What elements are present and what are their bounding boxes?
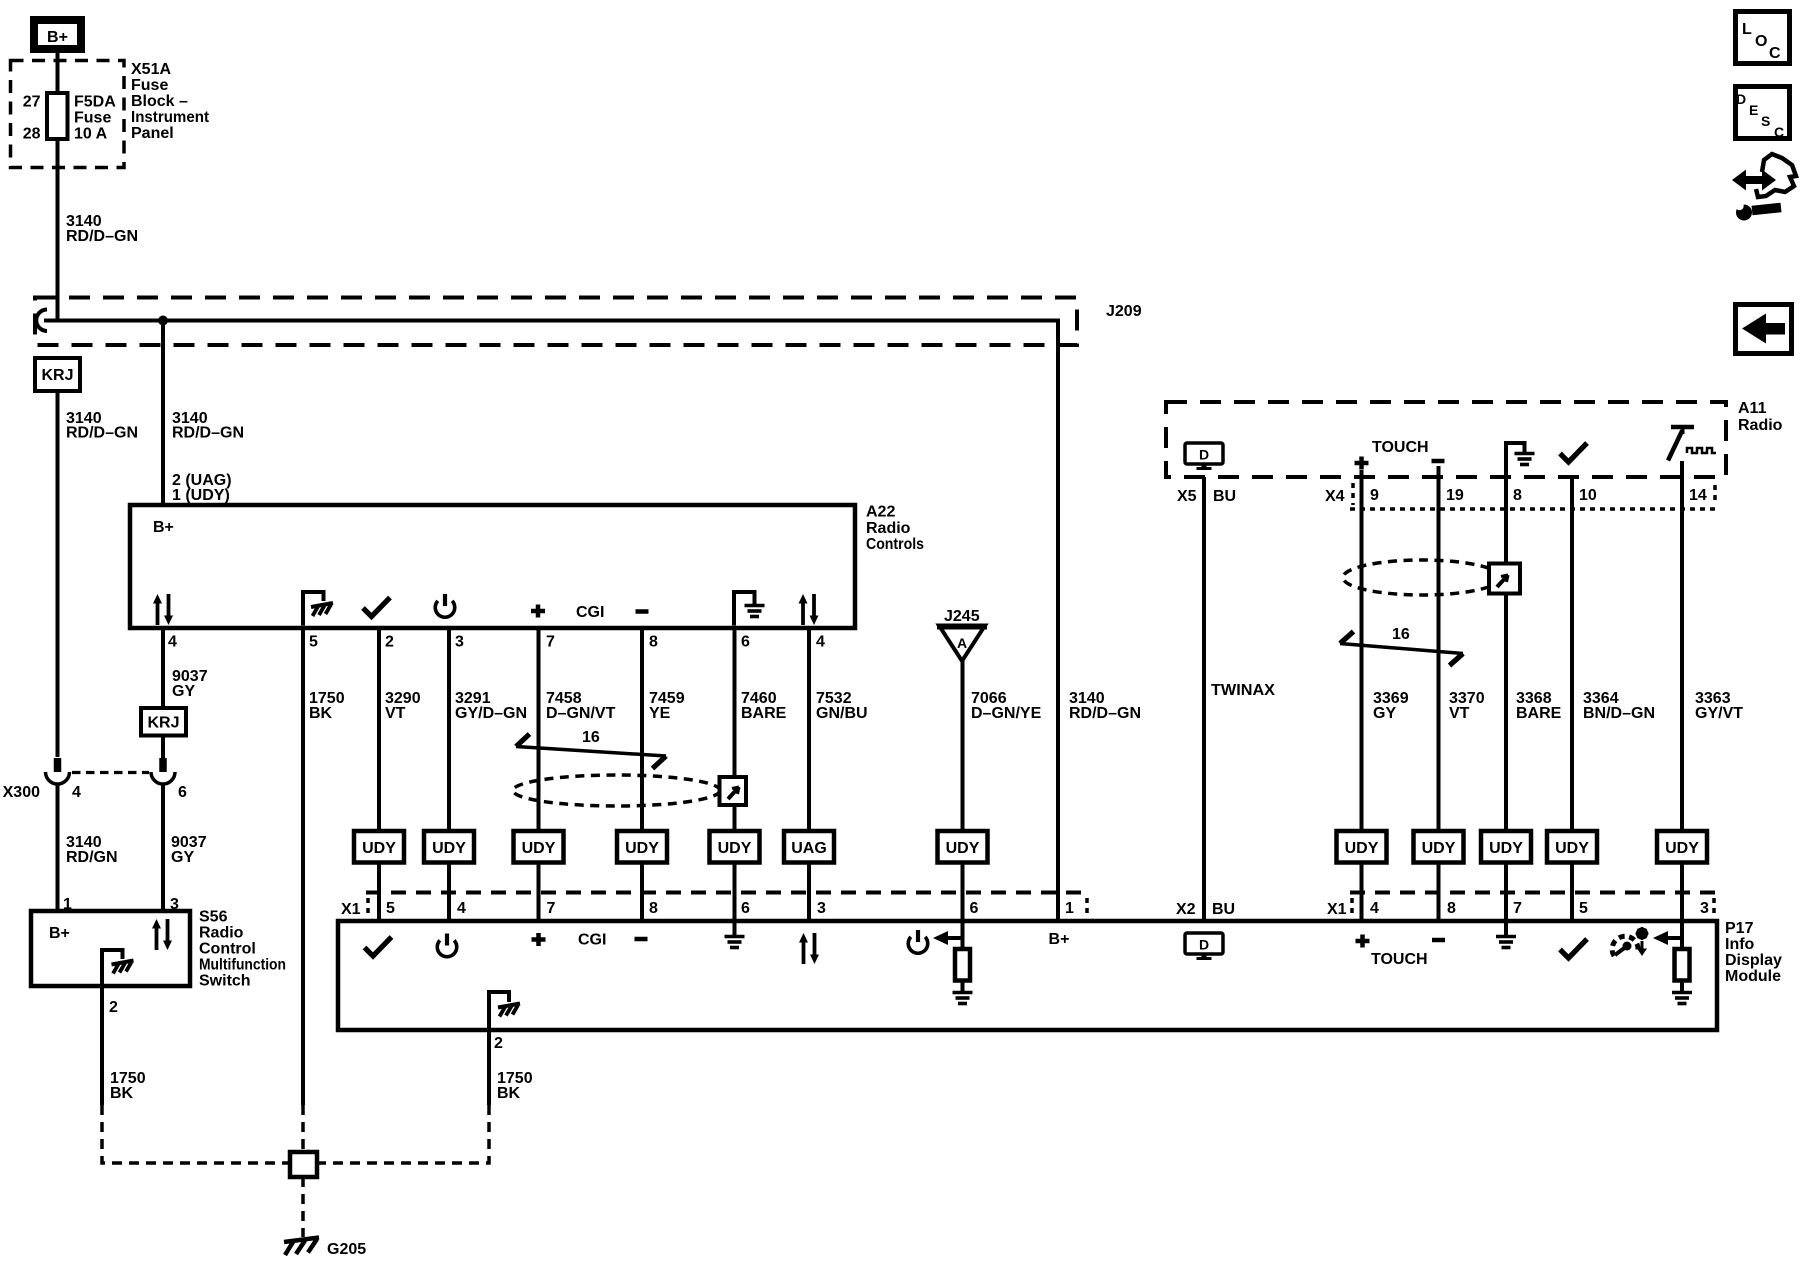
wire 3369 GY (touch +) (1360, 470, 1364, 831)
svg-text:J245: J245 (944, 608, 980, 625)
svg-text:KRJ: KRJ (41, 367, 73, 384)
splice code UDY (pin 3 wire) (424, 831, 474, 863)
P17 TOUCH - node (1432, 939, 1445, 941)
wire 3140 RD/D-GN from J209 down to P17 pin 1 (1056, 319, 1060, 922)
svg-text:A: A (957, 635, 967, 651)
male terminal at X300 pin 4 (54, 758, 62, 772)
wire 3364 UDY to P17 pin 5 (1570, 863, 1574, 922)
splice code UDY (pin 2 wire) (354, 831, 404, 863)
svg-text:6: 6 (178, 784, 187, 801)
svg-text:2: 2 (385, 634, 394, 651)
wire label 7066 D-GN/YE (971, 690, 1042, 722)
svg-text:Display: Display (1725, 952, 1782, 969)
wire 7459 YE from A22 pin 8 (640, 628, 644, 831)
svg-text:GY: GY (172, 683, 195, 700)
P17 TOUCH + node (1356, 935, 1370, 948)
A22 internal chassis ground hook (pin 5) (301, 592, 324, 626)
splice code UDY (pin 7 wire) (514, 831, 564, 863)
wire 1750 BK from P17 pin 2 (487, 1030, 491, 1105)
svg-text:BARE: BARE (741, 705, 787, 722)
svg-text:TWINAX: TWINAX (1211, 682, 1275, 699)
P17 earth ground below resistor (right) (1672, 993, 1692, 1004)
svg-text:X2: X2 (1176, 901, 1196, 918)
splice code UDY (pin 6 wire) (710, 831, 760, 863)
bus wire inside J209 (44, 319, 1058, 323)
radio control multifunction switch S56 (31, 911, 190, 986)
svg-text:KRJ: KRJ (147, 715, 179, 732)
svg-text:6: 6 (970, 900, 979, 917)
svg-text:2: 2 (494, 1035, 503, 1052)
shield drain arrow inside box (728, 787, 739, 799)
svg-text:VT: VT (385, 705, 406, 722)
splice harness J209 dashed outline (35, 298, 1077, 346)
wire label 7459 YE (649, 690, 685, 722)
margin button DESC (1736, 87, 1790, 141)
connector X300 dashed link (72, 771, 149, 774)
A22 chassis ground symbol (311, 603, 333, 616)
connector X300 pin 4 female cup (46, 772, 70, 784)
wire 7458 D-GN/VT from A22 pin 7 (537, 628, 541, 831)
svg-text:RD/D–GN: RD/D–GN (172, 425, 244, 442)
P17 select (check) icon (365, 937, 392, 956)
svg-text:19: 19 (1446, 487, 1464, 504)
svg-text:7: 7 (546, 634, 555, 651)
connector band X4 bottom dotted line (1350, 507, 1718, 511)
X1 band right tick (1085, 898, 1089, 918)
svg-text:X300: X300 (3, 784, 40, 801)
svg-text:B+: B+ (1049, 931, 1070, 948)
X4 band left tick (1351, 483, 1355, 505)
connector X300 pin 6 female cup (151, 772, 175, 784)
wire label 3363 GY/VT (1695, 690, 1743, 722)
svg-text:2: 2 (109, 999, 118, 1016)
connector band X1 (right) dashed line (1350, 891, 1718, 895)
splice code UDY (3369 wire) (1337, 831, 1387, 863)
svg-text:X1: X1 (341, 901, 361, 918)
svg-text:F5DA: F5DA (74, 94, 116, 111)
splice code UDY (3363 wire) (1657, 831, 1707, 863)
wire 3368 BARE (shield) (1504, 477, 1508, 831)
svg-text:BK: BK (110, 1085, 134, 1102)
svg-text:GY: GY (1373, 705, 1396, 722)
wire 7532 UAG to P17 pin 3 (807, 863, 811, 922)
wire label 3140 RD/D-GN (fuse output) (66, 213, 138, 245)
wire 7458 UDY to P17 pin 7 (537, 863, 541, 922)
P17 up/down icon (799, 933, 819, 964)
pin label 2 (UAG) 1 (UDY) at A22 (172, 472, 232, 504)
svg-text:Multifunction: Multifunction (199, 957, 286, 974)
wire 3290 VT from A22 pin 2 (377, 628, 381, 831)
P17 power icon (7066 input) (908, 930, 928, 953)
svg-text:GY/D–GN: GY/D–GN (455, 705, 527, 722)
svg-text:C: C (1769, 45, 1781, 62)
S56 internal ground hook (pin 2) (100, 950, 123, 1030)
svg-text:28: 28 (23, 126, 41, 143)
P17 internal ground hook (pin 2) (487, 990, 509, 1030)
label S56 Radio Control Multifunction Switch (199, 909, 286, 990)
svg-text:7: 7 (1513, 900, 1522, 917)
svg-text:RD/D–GN: RD/D–GN (66, 228, 138, 245)
wire 3363 UDY to P17 pin 3 (1680, 863, 1684, 922)
svg-text:TOUCH: TOUCH (1372, 439, 1429, 456)
svg-text:RD/D–GN: RD/D–GN (66, 425, 138, 442)
svg-text:BN/D–GN: BN/D–GN (1583, 705, 1655, 722)
svg-text:Fuse: Fuse (131, 77, 168, 94)
wire 3290 UDY to P17 pin 5 (377, 863, 381, 922)
svg-text:UDY: UDY (1489, 840, 1523, 857)
wire label 3140 RD/D-GN (to P17 pin 1) (1069, 690, 1141, 722)
radio controls module A22 (130, 505, 855, 628)
label A22 Radio Controls (866, 504, 924, 554)
wire label 3140 RD/GN (66, 834, 118, 866)
wire 3369 UDY to P17 pin 4 (1360, 863, 1364, 922)
X1 right band left tick (1350, 898, 1354, 918)
svg-text:UDY: UDY (362, 840, 396, 857)
svg-text:B+: B+ (153, 519, 174, 536)
svg-text:Radio: Radio (866, 520, 911, 537)
wire 3368 UDY to P17 pin 7 (1504, 863, 1508, 922)
svg-text:Control: Control (199, 941, 256, 958)
fuse value label F5DA Fuse 10 A (74, 94, 116, 143)
arrow from wire 3363 to gauge icon (1666, 936, 1682, 940)
wire TWINAX BU from A11 X5 to P17 X2 (1202, 477, 1206, 921)
info display module P17 (338, 921, 1717, 1030)
svg-text:B+: B+ (49, 925, 70, 942)
A11 display icon D (1185, 443, 1223, 470)
svg-text:S: S (1761, 113, 1770, 129)
wire label 3140 RD/D-GN (below KRJ) (66, 410, 138, 442)
wire X300-4 to S56 pin 1 (56, 783, 60, 911)
svg-text:TOUCH: TOUCH (1371, 951, 1428, 968)
wire X300-6 to S56 pin 3 (161, 783, 165, 911)
svg-text:5: 5 (386, 900, 395, 917)
svg-text:10: 10 (1579, 487, 1597, 504)
svg-text:8: 8 (1513, 487, 1522, 504)
svg-text:UDY: UDY (946, 840, 980, 857)
wire label 7532 GN/BU (816, 690, 868, 722)
X1 right band right tick (1712, 898, 1716, 918)
P17 earth ground (touch shield) (1504, 921, 1508, 936)
X4 band right tick (1713, 485, 1717, 505)
svg-text:GY: GY (171, 849, 194, 866)
wire 7459 UDY to P17 pin 8 (640, 863, 644, 922)
svg-text:BU: BU (1212, 901, 1235, 918)
shield termination box on wire 7460 (720, 777, 747, 805)
svg-text:Radio: Radio (199, 925, 244, 942)
shield termination box on wire 3368 (1489, 564, 1520, 594)
wire label 9037 GY (below A22) (172, 668, 208, 700)
wire label 7458 D-GN/VT (546, 690, 616, 722)
svg-text:A11: A11 (1738, 400, 1767, 417)
svg-text:Block –: Block – (131, 93, 188, 110)
A22 seek up/down icon (153, 594, 173, 625)
connector KRJ (left, on wire 3140) (35, 358, 80, 391)
A11 antenna symbol (1668, 427, 1716, 461)
dashed ground wire from S56 pin 2 (102, 1105, 288, 1163)
wire label 7460 BARE (741, 690, 787, 722)
margin button LOC (1736, 12, 1790, 64)
wire label 1750 BK (P17 ground lead) (497, 1070, 533, 1102)
wire label 3368 BARE (1516, 690, 1562, 722)
shield ellipse (left) (513, 775, 720, 806)
label A11 Radio (1738, 400, 1783, 434)
svg-text:BK: BK (497, 1085, 521, 1102)
dashed wire junction to G205 (301, 1177, 305, 1237)
svg-text:Instrument: Instrument (131, 109, 210, 126)
P17 CGI - node (635, 938, 648, 940)
A11 earth ground hook (pin 8) (1504, 443, 1525, 477)
radio A11 dashed outline (1166, 402, 1726, 477)
margin button back-arrow (1736, 305, 1792, 354)
wire 3363 GY/VT (1680, 461, 1684, 831)
shield drain arrow inside box (1497, 575, 1508, 587)
wire KRJ to X300 pin 4 (56, 391, 60, 757)
S56 up/down icon (152, 919, 172, 950)
svg-text:UDY: UDY (1422, 840, 1456, 857)
X1 band left tick (366, 898, 370, 918)
wire label 3291 GY/D-GN (455, 690, 527, 722)
svg-text:27: 27 (23, 94, 41, 111)
svg-text:8: 8 (649, 900, 658, 917)
svg-text:3: 3 (1700, 900, 1709, 917)
wire label 1750 BK (S56 ground lead) (110, 1070, 146, 1102)
wire J209 to A22 pin B+ (161, 321, 165, 506)
svg-text:UDY: UDY (1345, 840, 1379, 857)
svg-text:UDY: UDY (432, 840, 466, 857)
svg-text:Info: Info (1725, 936, 1755, 953)
wire label 3364 BN/D-GN (1583, 690, 1655, 722)
wire 7066 D-GN/YE from J245 (961, 661, 965, 831)
twisted-lead arrow (left) (516, 747, 666, 757)
svg-text:BK: BK (309, 705, 333, 722)
P17 select (check) icon right (1560, 939, 1587, 958)
splice code UDY (3368 wire) (1481, 831, 1531, 863)
svg-text:Controls: Controls (866, 536, 924, 553)
svg-text:Fuse: Fuse (74, 110, 111, 127)
svg-text:G205: G205 (327, 1241, 366, 1258)
wire 7460 UDY to P17 pin 6 (733, 863, 737, 922)
P17 power icon (437, 934, 457, 957)
svg-text:UDY: UDY (522, 840, 556, 857)
wire 1750 BK from A22 pin 5 (301, 628, 305, 1105)
svg-text:RD/D–GN: RD/D–GN (1069, 705, 1141, 722)
svg-text:S56: S56 (199, 909, 228, 926)
svg-text:BARE: BARE (1516, 705, 1562, 722)
A11 select (check) icon (1560, 443, 1587, 462)
svg-text:P17: P17 (1725, 920, 1754, 937)
svg-text:YE: YE (649, 705, 671, 722)
P17 gauge/speedometer icon (1612, 927, 1648, 956)
svg-text:UDY: UDY (625, 840, 659, 857)
A22 volume up/down icon (799, 594, 819, 625)
svg-text:X51A: X51A (131, 61, 171, 78)
P17 earth ground (pin 6) (733, 921, 737, 936)
wire 3291 UDY to P17 pin 4 (447, 863, 451, 922)
wire from B+ through fuse F5DA down to J209 (56, 53, 60, 320)
svg-text:UDY: UDY (718, 840, 752, 857)
svg-text:D: D (1736, 91, 1746, 107)
twisted-lead arrow (right) (1340, 644, 1463, 654)
power feed B+ symbol (30, 16, 85, 53)
P17 CGI + node (532, 933, 546, 946)
shield ellipse (right) (1343, 560, 1501, 595)
svg-text:RD/GN: RD/GN (66, 849, 118, 866)
svg-text:Radio: Radio (1738, 417, 1783, 434)
P17 earth ground below resistor (953, 993, 973, 1004)
P17 chassis ground symbol (498, 1004, 520, 1017)
wire label 3140 RD/D-GN (junction branch) (172, 410, 244, 442)
svg-text:4: 4 (72, 784, 81, 801)
svg-text:1 (UDY): 1 (UDY) (172, 487, 230, 504)
svg-text:BU: BU (1213, 488, 1236, 505)
wire label 3369 GY (1373, 690, 1409, 722)
wire label 1750 BK (309, 690, 345, 722)
antenna triangle J245 (937, 626, 987, 662)
ground splice junction box (290, 1152, 317, 1177)
svg-text:4: 4 (1370, 900, 1379, 917)
svg-text:X1: X1 (1327, 901, 1347, 918)
svg-text:Module: Module (1725, 968, 1781, 985)
splice code UDY (3370 wire) (1414, 831, 1464, 863)
svg-text:14: 14 (1689, 487, 1707, 504)
A22 select (check) icon (363, 598, 390, 617)
svg-text:4: 4 (457, 900, 466, 917)
svg-text:9: 9 (1370, 487, 1379, 504)
junction node at x163 (158, 316, 168, 326)
svg-text:5: 5 (309, 634, 318, 651)
svg-text:X4: X4 (1325, 488, 1345, 505)
svg-text:5: 5 (1579, 900, 1588, 917)
svg-text:Switch: Switch (199, 973, 251, 990)
svg-text:6: 6 (741, 900, 750, 917)
wire 1750 BK from S56 pin 2 (100, 1030, 104, 1105)
svg-text:L: L (1742, 21, 1752, 38)
wire 7460 BARE from A22 pin 6 (733, 628, 737, 831)
A22 earth ground symbol (745, 606, 765, 617)
svg-text:6: 6 (741, 634, 750, 651)
arrow from wire 7066 to power icon (946, 936, 963, 940)
svg-text:D–GN/VT: D–GN/VT (546, 705, 616, 722)
dashed ground wire from P17 pin 2 (319, 1105, 489, 1163)
label X51A Fuse Block - Instrument Panel (131, 61, 210, 142)
male terminal at X300 pin 6 (159, 758, 167, 772)
svg-text:3: 3 (455, 634, 464, 651)
label P17 Info Display Module (1725, 920, 1782, 985)
svg-text:O: O (1755, 33, 1767, 50)
A22 internal earth ground hook (pin 6) (732, 592, 755, 626)
svg-text:3: 3 (817, 900, 826, 917)
wire 3364 BN/D-GN (1570, 477, 1574, 831)
svg-text:1: 1 (1065, 900, 1074, 917)
fuse block X51A dashed outline (11, 61, 125, 168)
A11 TOUCH + node (1355, 457, 1369, 470)
A11 TOUCH - node (1432, 460, 1445, 462)
A22 power icon (435, 594, 455, 617)
A11 earth ground symbol (1515, 454, 1535, 465)
splice curl symbol at left end of J209 bus (36, 310, 47, 332)
splice code UAG (pin 4 wire) (784, 831, 834, 863)
P17 pull-down resistor (7066) (961, 921, 965, 949)
svg-text:Panel: Panel (131, 125, 174, 142)
svg-text:16: 16 (582, 729, 600, 746)
wire UDY to P17 pin 6 (961, 863, 965, 922)
svg-text:7: 7 (547, 900, 556, 917)
svg-text:J209: J209 (1106, 303, 1142, 320)
svg-text:UDY: UDY (1665, 840, 1699, 857)
svg-text:8: 8 (649, 634, 658, 651)
splice code UDY (pin 8 wire) (617, 831, 667, 863)
wire label 3290 VT (385, 690, 421, 722)
svg-text:B+: B+ (47, 29, 68, 46)
svg-text:4: 4 (816, 634, 825, 651)
svg-text:CGI: CGI (578, 932, 606, 949)
dashed ground wire from A22 pin 5 (301, 1105, 305, 1150)
svg-text:D–GN/YE: D–GN/YE (971, 705, 1042, 722)
svg-text:8: 8 (1447, 900, 1456, 917)
splice code UDY (7066 wire) (938, 831, 988, 863)
A22 CGI + node (531, 605, 545, 618)
svg-text:E: E (1749, 102, 1758, 118)
svg-text:CGI: CGI (576, 604, 604, 621)
svg-text:C: C (1774, 124, 1784, 140)
wire KRJ to X300 pin 6 (161, 736, 165, 759)
margin icon swap/repair (arrows and wrench) (1732, 154, 1796, 221)
wire 7532 GN/BU from A22 pin 4 (807, 628, 811, 831)
wire label 3370 VT (1449, 690, 1485, 722)
wire A22 pin4 to KRJ (9037 GY) (161, 628, 165, 708)
P17 display icon D (1185, 933, 1223, 960)
svg-text:10 A: 10 A (74, 126, 108, 143)
A22 CGI - node (636, 611, 649, 613)
svg-text:GY/VT: GY/VT (1695, 705, 1743, 722)
wire 3370 VT (touch -) (1437, 466, 1441, 831)
splice code UDY (3364 wire) (1547, 831, 1597, 863)
svg-text:A22: A22 (866, 504, 895, 521)
svg-text:UAG: UAG (791, 840, 827, 857)
svg-text:X5: X5 (1177, 488, 1197, 505)
svg-text:4: 4 (168, 634, 177, 651)
S56 chassis ground symbol (112, 961, 134, 974)
svg-text:GN/BU: GN/BU (816, 705, 868, 722)
P17 pull-down resistor (3363) (1680, 921, 1684, 949)
svg-text:UDY: UDY (1555, 840, 1589, 857)
svg-text:16: 16 (1392, 626, 1410, 643)
fuse F5DA (47, 93, 68, 139)
connector KRJ (right, on wire 9037) (141, 708, 186, 736)
svg-text:VT: VT (1449, 705, 1470, 722)
wire 3370 UDY to P17 pin 8 (1437, 863, 1441, 922)
ground G205 symbol (284, 1238, 319, 1256)
wire label 9037 GY (to S56) (171, 834, 207, 866)
wire 3291 GY/D-GN from A22 pin 3 (447, 628, 451, 831)
connector band X1 (left) dashed line (366, 891, 1087, 895)
